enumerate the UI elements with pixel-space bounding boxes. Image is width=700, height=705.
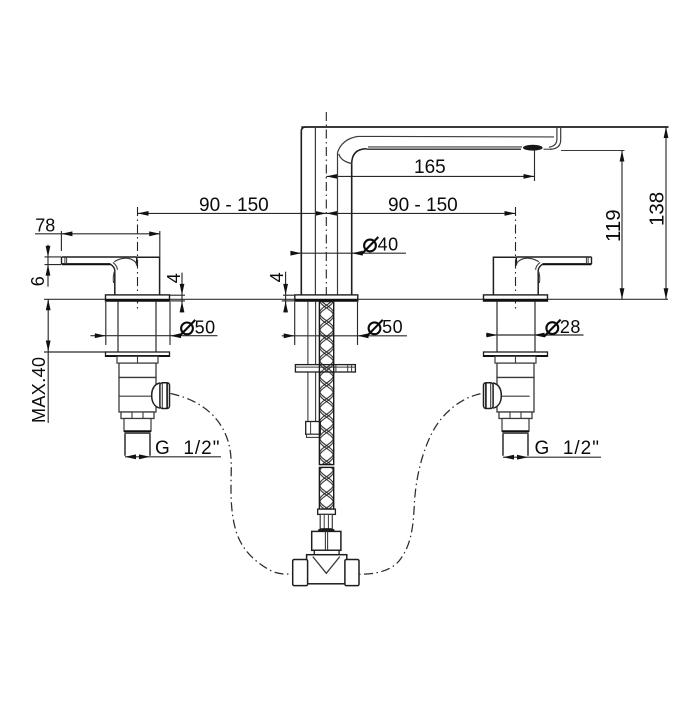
threaded tail G 1/2 <box>503 433 528 456</box>
lock nut <box>121 412 154 419</box>
valve body lower <box>497 378 534 413</box>
wire deck mounting surface line <box>44 298 668 300</box>
left flexible hose dashed <box>171 394 293 575</box>
threaded tail G 1/2 <box>125 433 150 456</box>
svg-text:28: 28 <box>560 317 581 337</box>
centre mounting bracket plate <box>295 365 355 372</box>
spout column and arm outline <box>301 127 668 295</box>
dimension diameter 50 spout plate <box>294 302 296 345</box>
spout base plate <box>295 295 358 301</box>
left handle grip neck <box>111 264 115 270</box>
hose outlet cap <box>484 383 494 409</box>
spout arm underside lines <box>368 146 522 148</box>
right handle centre line <box>515 207 517 310</box>
svg-text:40: 40 <box>378 234 399 254</box>
dimension G 1/2 left <box>125 456 221 458</box>
T-connector hex nut <box>312 531 341 550</box>
fitting shadow band <box>318 528 335 532</box>
left handle lever <box>62 256 137 258</box>
node spout centre line <box>325 112 327 295</box>
right handle grip neck <box>538 264 542 270</box>
hose fitting ribbed <box>320 514 332 528</box>
dimension 4 left base plate thickness <box>181 273 183 313</box>
svg-text:138: 138 <box>646 192 669 226</box>
T-connector body <box>307 555 347 584</box>
svg-text:78: 78 <box>35 215 55 235</box>
spout arm right end <box>549 128 557 148</box>
dimension 165 spout reach <box>326 175 534 177</box>
svg-text:6: 6 <box>28 276 48 286</box>
hose outlet cap <box>160 383 170 409</box>
dimension 78 lever length <box>35 233 160 235</box>
hose end collar <box>318 509 336 514</box>
dimension 119 vertical <box>621 151 623 300</box>
right handle cylinder <box>493 257 538 295</box>
nut collar <box>314 550 339 554</box>
right flexible hose dashed <box>360 394 481 574</box>
spout corner shading arcs <box>338 136 359 152</box>
right handle base plate <box>484 295 548 301</box>
svg-text:MAX.40: MAX.40 <box>29 357 49 423</box>
svg-text:50: 50 <box>382 317 403 337</box>
hose outlet dome <box>493 383 501 408</box>
svg-text:90 - 150: 90 - 150 <box>199 195 269 216</box>
valve body lower <box>119 378 156 413</box>
svg-text:4: 4 <box>164 273 184 283</box>
dimension diameter 40 spout column <box>292 252 406 254</box>
valve neck <box>124 419 151 432</box>
left valve shank below deck <box>117 302 119 353</box>
left handle cylinder <box>115 257 160 295</box>
dimension diameter 28 shank <box>486 334 584 336</box>
svg-text:G 1/2": G 1/2" <box>535 438 601 459</box>
right valve shank below deck <box>534 302 536 353</box>
hose outlet dome <box>152 383 160 408</box>
dimension G 1/2 right <box>503 456 601 458</box>
wire spout top extension line <box>301 126 668 128</box>
stud nut <box>306 422 321 435</box>
threaded stud rod <box>307 302 309 422</box>
svg-text:90 - 150: 90 - 150 <box>388 195 458 216</box>
flange nut <box>117 356 158 363</box>
dimension 6 lever thickness <box>47 245 49 287</box>
spout right edge <box>351 164 353 295</box>
T-connector left cap <box>293 560 308 586</box>
valve body upper <box>497 363 534 377</box>
left handle centre line <box>137 207 139 310</box>
dimension diameter 50 left plate <box>105 302 107 345</box>
spout inner corner arc <box>352 149 367 164</box>
T-connector right cap <box>345 560 359 586</box>
spout inner column lines <box>314 128 316 295</box>
flange nut <box>495 356 536 363</box>
svg-text:165: 165 <box>414 157 446 178</box>
dimension 90-150 right <box>326 212 515 214</box>
valve neck <box>502 419 529 432</box>
svg-text:4: 4 <box>267 272 287 282</box>
svg-text:G 1/2": G 1/2" <box>155 438 221 459</box>
lock nut <box>499 412 532 419</box>
wire spout outlet level extension line <box>561 150 625 152</box>
dimension MAX 40 deck thickness <box>47 299 49 423</box>
valve body upper <box>119 363 156 377</box>
dimension 90-150 left <box>138 212 327 214</box>
dimension 4 spout base plate thickness <box>285 272 287 313</box>
mounting flange <box>484 352 548 356</box>
left handle base plate <box>106 295 170 301</box>
mounting flange <box>106 352 170 356</box>
aerator outlet dark <box>523 145 543 151</box>
right handle lever <box>516 256 591 258</box>
dimension 138 vertical <box>665 127 667 299</box>
braided supply hose lower <box>319 467 333 509</box>
svg-text:50: 50 <box>195 317 216 337</box>
braided supply hose upper <box>319 302 333 465</box>
svg-text:119: 119 <box>602 209 625 242</box>
